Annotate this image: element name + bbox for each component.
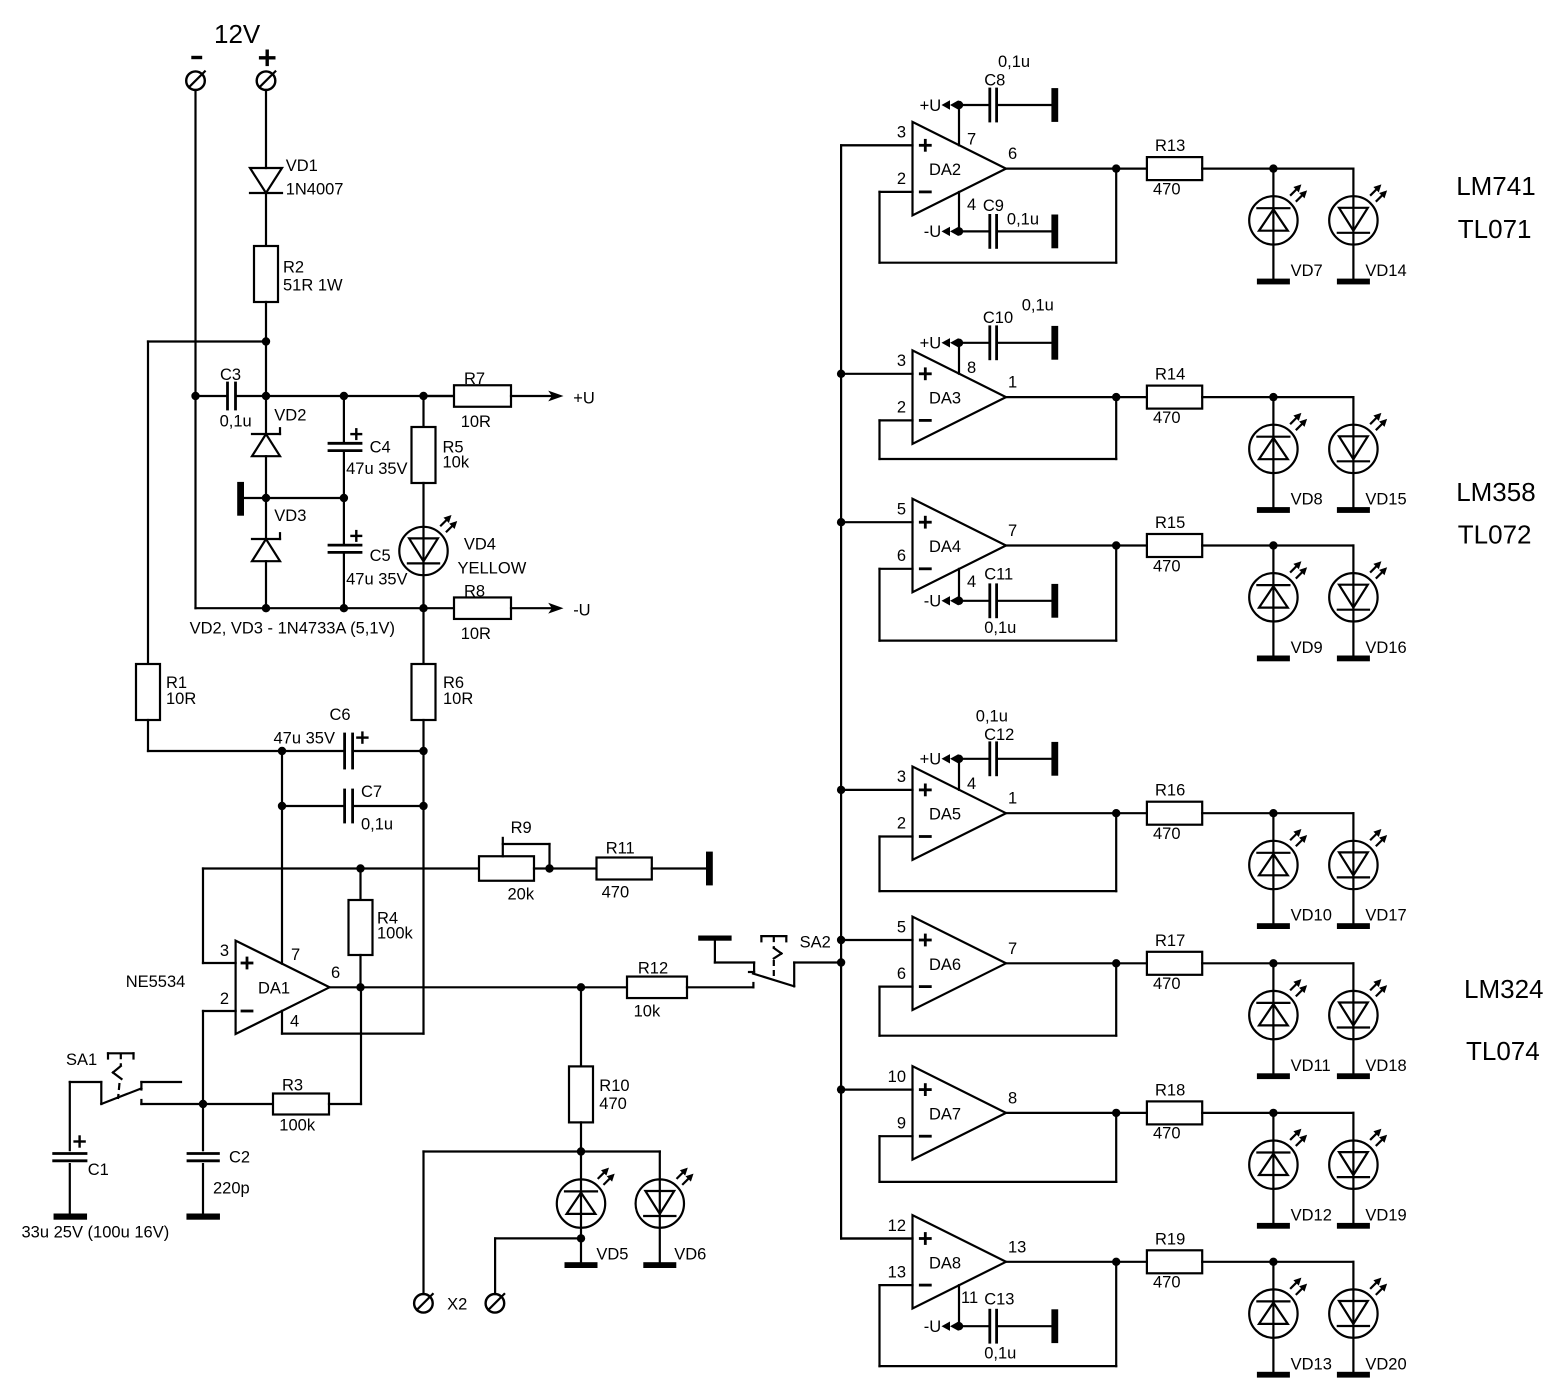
capacitor C6 bbox=[343, 734, 346, 768]
svg-text:R19: R19 bbox=[1155, 1230, 1185, 1248]
ground under VD9 bbox=[1257, 656, 1290, 662]
resistor R7 bbox=[424, 395, 455, 397]
node R9 wiper bbox=[545, 864, 553, 872]
svg-text:7: 7 bbox=[291, 946, 300, 964]
svg-text:VD10: VD10 bbox=[1291, 907, 1332, 925]
svg-text:6: 6 bbox=[1008, 145, 1017, 163]
svg-text:C7: C7 bbox=[361, 783, 382, 801]
svg-text:VD16: VD16 bbox=[1365, 639, 1406, 657]
wire R9 to R11 bbox=[534, 867, 597, 869]
svg-text:7: 7 bbox=[1008, 940, 1017, 958]
ground under VD12 bbox=[1257, 1223, 1290, 1229]
node DA8 -U bbox=[955, 1322, 963, 1330]
terminator bar C8 bbox=[1051, 88, 1058, 122]
wire DA6 output bbox=[1006, 962, 1147, 964]
terminal X2 right bbox=[486, 1294, 505, 1313]
wire R12 to SA2 bbox=[687, 986, 753, 988]
node LED VD8 bbox=[1269, 393, 1277, 401]
svg-text:12: 12 bbox=[888, 1217, 906, 1235]
wire R19 to LEDs bbox=[1202, 1261, 1273, 1263]
svg-text:R9: R9 bbox=[511, 819, 532, 837]
svg-text:220p: 220p bbox=[213, 1180, 250, 1198]
svg-text:470: 470 bbox=[1153, 409, 1181, 427]
svg-text:R10: R10 bbox=[599, 1077, 629, 1095]
node R2/R1 junction bbox=[262, 337, 270, 345]
wire DA5 output bbox=[1006, 812, 1147, 814]
svg-text:DA4: DA4 bbox=[929, 538, 961, 556]
capacitor C5 bbox=[343, 498, 345, 543]
svg-text:VD6: VD6 bbox=[674, 1246, 706, 1264]
LED VD16 bbox=[1352, 546, 1354, 656]
node bus DA3 bbox=[837, 370, 845, 378]
svg-text:R12: R12 bbox=[638, 960, 668, 978]
wire R8 to -U bbox=[511, 607, 554, 609]
svg-text:1: 1 bbox=[1008, 790, 1017, 808]
node VD2 top bbox=[262, 392, 270, 400]
svg-text:SA2: SA2 bbox=[800, 934, 831, 952]
node C4/C5 mid bbox=[340, 494, 348, 502]
wire DA6 feedback bbox=[880, 985, 913, 987]
svg-text:0,1u: 0,1u bbox=[1022, 297, 1054, 315]
arrow -U bbox=[548, 603, 563, 614]
op-amp DA1 bbox=[236, 941, 330, 1034]
node DA3 +U bbox=[955, 339, 963, 347]
svg-text:VD2, VD3 - 1N4733A (5,1V): VD2, VD3 - 1N4733A (5,1V) bbox=[190, 620, 395, 638]
op-amp DA6 bbox=[913, 917, 1007, 1010]
wire VD3 to -rail bbox=[265, 561, 267, 608]
wire DA8 feedback bbox=[880, 1284, 913, 1286]
LED VD19 bbox=[1352, 1113, 1354, 1223]
ground under VD19 bbox=[1337, 1223, 1370, 1229]
ground under C2 bbox=[186, 1214, 220, 1220]
resistor R16 bbox=[1147, 802, 1202, 825]
svg-text:8: 8 bbox=[1008, 1089, 1017, 1107]
op-amp DA2 bbox=[913, 122, 1007, 215]
svg-text:DA5: DA5 bbox=[929, 806, 961, 824]
capacitor C1 bbox=[69, 1082, 71, 1150]
node VD5 cathode tap bbox=[577, 1234, 585, 1242]
ground under VD20 bbox=[1337, 1372, 1370, 1378]
node C6 left tap bbox=[278, 747, 286, 755]
svg-text:-U: -U bbox=[573, 602, 590, 620]
svg-text:VD15: VD15 bbox=[1365, 491, 1406, 509]
svg-text:3: 3 bbox=[220, 942, 229, 960]
svg-text:VD17: VD17 bbox=[1365, 907, 1406, 925]
capacitor C2 bbox=[202, 1104, 204, 1150]
wire DA7 +input bbox=[841, 1088, 912, 1090]
node VD4 bottom bbox=[419, 604, 427, 612]
node DA4 -U bbox=[955, 597, 963, 605]
wire DA1 output bbox=[330, 986, 628, 988]
svg-text:4: 4 bbox=[967, 196, 976, 214]
wire DA3 +input bbox=[841, 373, 912, 375]
svg-text:VD3: VD3 bbox=[274, 507, 306, 525]
svg-text:R14: R14 bbox=[1155, 366, 1185, 384]
wire DA8 output bbox=[1006, 1261, 1147, 1263]
op-amp DA3 bbox=[913, 350, 1007, 443]
svg-text:470: 470 bbox=[1153, 1125, 1181, 1143]
svg-text:C5: C5 bbox=[370, 547, 391, 565]
wire VD1 to R2 bbox=[265, 193, 267, 246]
wire DA1 pin2 bbox=[203, 1010, 236, 1012]
LED VD4 bbox=[399, 527, 447, 575]
terminator bar C12 bbox=[1051, 742, 1058, 776]
wire R16 to LEDs bbox=[1202, 812, 1273, 814]
capacitor C9 bbox=[959, 230, 988, 232]
terminal X1 minus bbox=[186, 71, 205, 90]
node DA2 -U bbox=[955, 227, 963, 235]
node DA2 output bbox=[1112, 164, 1120, 172]
svg-text:-U: -U bbox=[924, 223, 941, 241]
resistor R17 bbox=[1147, 952, 1202, 975]
svg-text:VD18: VD18 bbox=[1365, 1057, 1406, 1075]
svg-text:470: 470 bbox=[602, 884, 630, 902]
svg-text:3: 3 bbox=[897, 352, 906, 370]
op-amp DA4 bbox=[913, 499, 1007, 592]
svg-text:4: 4 bbox=[290, 1013, 299, 1031]
wire DA3 output bbox=[1006, 396, 1147, 398]
terminator bar C10 bbox=[1051, 326, 1058, 360]
svg-text:470: 470 bbox=[1153, 557, 1181, 575]
wire X2 left drop bbox=[422, 1152, 424, 1295]
svg-text:YELLOW: YELLOW bbox=[458, 560, 527, 578]
capacitor C4 bbox=[343, 396, 345, 442]
wire +rail y396 bbox=[196, 395, 227, 397]
wire R13 to LEDs bbox=[1202, 168, 1273, 170]
wire DA4 feedback bbox=[880, 568, 913, 570]
svg-text:VD19: VD19 bbox=[1365, 1206, 1406, 1224]
wire input bus bbox=[840, 145, 842, 1238]
wire -U vertical to DA1 pin4 bbox=[422, 751, 424, 1034]
ground under VD8 bbox=[1257, 507, 1290, 513]
wire DA8 +input bbox=[841, 1237, 912, 1239]
node C6 right tap bbox=[419, 747, 427, 755]
wire R2 to rail node bbox=[265, 302, 267, 396]
wire R7 to +U bbox=[511, 395, 554, 397]
zener VD3 bbox=[252, 538, 280, 540]
node DA2 +U bbox=[955, 101, 963, 109]
ground under VD6 bbox=[643, 1262, 676, 1268]
svg-text:C2: C2 bbox=[229, 1149, 250, 1167]
svg-text:47u 35V: 47u 35V bbox=[346, 460, 407, 478]
terminal X2 left bbox=[414, 1294, 433, 1313]
resistor R12 bbox=[627, 977, 687, 999]
resistor R2 bbox=[254, 246, 278, 302]
svg-text:C12: C12 bbox=[984, 726, 1014, 744]
svg-text:4: 4 bbox=[967, 775, 976, 793]
svg-text:VD4: VD4 bbox=[464, 536, 496, 554]
node C7 right bbox=[419, 802, 427, 810]
svg-text:5: 5 bbox=[897, 501, 906, 519]
node zener midpoint bbox=[262, 494, 270, 502]
svg-text:1N4007: 1N4007 bbox=[286, 181, 344, 199]
svg-text:100k: 100k bbox=[377, 925, 414, 943]
wire DA2 feedback bbox=[880, 191, 913, 193]
wire R3 to output bbox=[329, 1103, 361, 1105]
wire DA1 pin7 bbox=[281, 751, 283, 964]
svg-text:R16: R16 bbox=[1155, 782, 1185, 800]
svg-text:+U: +U bbox=[920, 751, 942, 769]
svg-text:R8: R8 bbox=[464, 583, 485, 601]
resistor R15 bbox=[1147, 534, 1202, 557]
wire minus rail bbox=[194, 90, 196, 396]
wire R18 to LEDs bbox=[1202, 1112, 1273, 1114]
svg-text:7: 7 bbox=[1008, 522, 1017, 540]
svg-text:0,1u: 0,1u bbox=[1007, 211, 1039, 229]
LED VD13 bbox=[1272, 1262, 1274, 1372]
potentiometer R9 bbox=[479, 856, 534, 881]
svg-text:5: 5 bbox=[897, 918, 906, 936]
wire -rail y608 bbox=[196, 607, 455, 609]
op-amp DA5 bbox=[913, 767, 1007, 860]
svg-text:R7: R7 bbox=[464, 370, 485, 388]
zener VD2 bbox=[265, 396, 267, 434]
LED VD14 bbox=[1352, 169, 1354, 279]
wire DA7 feedback bbox=[880, 1135, 913, 1137]
op-amp DA7 bbox=[913, 1066, 1007, 1159]
wire R1 to C6 rail bbox=[147, 720, 149, 751]
svg-text:2: 2 bbox=[897, 399, 906, 417]
LED VD5 bbox=[580, 1152, 582, 1263]
resistor R4 bbox=[359, 869, 361, 901]
wire DA4 +input bbox=[841, 521, 912, 523]
svg-text:470: 470 bbox=[1153, 975, 1181, 993]
resistor R8 bbox=[454, 597, 511, 619]
svg-text:100k: 100k bbox=[279, 1117, 316, 1135]
wire R11 to bar bbox=[652, 867, 706, 869]
svg-text:C4: C4 bbox=[370, 439, 391, 457]
resistor R1 bbox=[136, 664, 160, 720]
svg-text:DA3: DA3 bbox=[929, 390, 961, 408]
svg-text:10R: 10R bbox=[166, 690, 196, 708]
svg-text:VD11: VD11 bbox=[1291, 1057, 1331, 1075]
node R5 top bbox=[419, 392, 427, 400]
wire DA3 pin 8 supply bbox=[958, 343, 960, 374]
svg-text:VD14: VD14 bbox=[1365, 262, 1406, 280]
ground under VD5 bbox=[565, 1262, 598, 1268]
ground under VD14 bbox=[1337, 279, 1370, 285]
terminator bar C13 bbox=[1051, 1309, 1058, 1343]
resistor R18 bbox=[1147, 1101, 1202, 1124]
ground under VD18 bbox=[1337, 1073, 1370, 1079]
wire DA5 pin 4 supply bbox=[958, 759, 960, 790]
capacitor C8 bbox=[959, 104, 988, 106]
svg-text:TL074: TL074 bbox=[1466, 1036, 1540, 1066]
svg-text:10k: 10k bbox=[634, 1003, 661, 1021]
resistor R14 bbox=[1147, 386, 1202, 409]
wire DA4 pin 4 supply bbox=[958, 569, 960, 601]
wire R17 to LEDs bbox=[1202, 962, 1273, 964]
resistor R3 bbox=[141, 1103, 273, 1105]
wire R5 to VD4 bbox=[422, 483, 424, 608]
wire mid to C4/C5 bbox=[266, 497, 344, 499]
wire X2 right link bbox=[495, 1237, 581, 1239]
wire DA2 pin 4 supply bbox=[958, 192, 960, 231]
wire branch to R1 bbox=[148, 340, 266, 342]
node minus rail / C3 bbox=[191, 392, 199, 400]
svg-text:4: 4 bbox=[967, 573, 976, 591]
diode VD1 bbox=[250, 168, 282, 193]
svg-text:51R 1W: 51R 1W bbox=[283, 277, 343, 295]
node R10 bottom bbox=[577, 1147, 585, 1155]
wire R14 to LEDs bbox=[1202, 396, 1273, 398]
node LED VD13 bbox=[1269, 1258, 1277, 1266]
wire bias line y868 bbox=[203, 867, 479, 869]
svg-text:1: 1 bbox=[1008, 374, 1017, 392]
node VD3 bottom bbox=[262, 604, 270, 612]
node bus DA4 bbox=[837, 518, 845, 526]
svg-text:X2: X2 bbox=[447, 1296, 467, 1314]
node R4/R3 output bbox=[356, 983, 364, 991]
node LED VD7 bbox=[1269, 164, 1277, 172]
LED VD15 bbox=[1352, 397, 1354, 507]
svg-text:470: 470 bbox=[1153, 1274, 1181, 1292]
wire DA1 pin3 bbox=[203, 962, 236, 964]
wire DA5 feedback bbox=[880, 835, 913, 837]
node C7 left bbox=[278, 802, 286, 810]
LED VD6 bbox=[659, 1152, 661, 1263]
svg-text:7: 7 bbox=[967, 131, 976, 149]
node LED VD10 bbox=[1269, 809, 1277, 817]
terminator bar C9 bbox=[1051, 215, 1058, 249]
svg-text:33u 25V (100u 16V): 33u 25V (100u 16V) bbox=[22, 1224, 170, 1242]
node C5 bottom bbox=[340, 604, 348, 612]
svg-text:R2: R2 bbox=[283, 259, 304, 277]
svg-text:-U: -U bbox=[924, 1318, 941, 1336]
svg-text:C1: C1 bbox=[88, 1161, 109, 1179]
ground lug mid-rail bbox=[237, 482, 244, 516]
resistor R11 bbox=[597, 858, 652, 880]
svg-text:LM741: LM741 bbox=[1456, 171, 1536, 201]
wire DA8 pin 11 supply bbox=[958, 1285, 960, 1326]
svg-text:10R: 10R bbox=[461, 625, 491, 643]
svg-text:0,1u: 0,1u bbox=[361, 816, 393, 834]
resistor R10 bbox=[580, 987, 582, 1066]
svg-text:0,1u: 0,1u bbox=[220, 413, 252, 431]
svg-text:DA1: DA1 bbox=[258, 980, 290, 998]
svg-text:2: 2 bbox=[897, 815, 906, 833]
LED VD18 bbox=[1352, 963, 1354, 1073]
svg-text:47u 35V: 47u 35V bbox=[346, 571, 407, 589]
svg-text:VD7: VD7 bbox=[1291, 262, 1323, 280]
node DA5 +U bbox=[955, 755, 963, 763]
ground under VD15 bbox=[1337, 507, 1370, 513]
svg-text:13: 13 bbox=[888, 1263, 906, 1281]
LED VD7 bbox=[1272, 169, 1274, 279]
svg-text:VD12: VD12 bbox=[1291, 1206, 1332, 1224]
svg-text:20k: 20k bbox=[508, 886, 535, 904]
ground under VD10 bbox=[1257, 923, 1290, 929]
terminator bar C11 bbox=[1051, 584, 1058, 618]
wire C6 right bbox=[354, 750, 424, 752]
node R4 top bbox=[356, 864, 364, 872]
svg-text:VD1: VD1 bbox=[286, 157, 318, 175]
svg-text:+U: +U bbox=[573, 390, 595, 408]
svg-text:R3: R3 bbox=[282, 1077, 303, 1095]
svg-text:3: 3 bbox=[897, 768, 906, 786]
wire DA4 output bbox=[1006, 544, 1147, 546]
svg-text:-U: -U bbox=[924, 593, 941, 611]
svg-text:10: 10 bbox=[888, 1068, 906, 1086]
svg-text:TL071: TL071 bbox=[1458, 214, 1532, 244]
node bus DA7 bbox=[837, 1085, 845, 1093]
svg-text:470: 470 bbox=[1153, 825, 1181, 843]
svg-text:47u 35V: 47u 35V bbox=[274, 730, 335, 748]
LED VD9 bbox=[1272, 546, 1274, 656]
svg-text:C13: C13 bbox=[984, 1291, 1014, 1309]
svg-text:DA2: DA2 bbox=[929, 161, 961, 179]
svg-text:VD5: VD5 bbox=[596, 1246, 628, 1264]
svg-text:C9: C9 bbox=[983, 197, 1004, 215]
svg-text:C8: C8 bbox=[984, 72, 1005, 90]
capacitor C7 bbox=[282, 805, 343, 807]
svg-text:6: 6 bbox=[331, 964, 340, 982]
svg-text:C3: C3 bbox=[220, 366, 241, 384]
capacitor C11 bbox=[959, 600, 988, 602]
svg-text:2: 2 bbox=[897, 170, 906, 188]
svg-text:VD9: VD9 bbox=[1291, 639, 1323, 657]
node DA4 output bbox=[1112, 541, 1120, 549]
svg-text:R11: R11 bbox=[606, 840, 635, 858]
svg-text:10R: 10R bbox=[443, 690, 473, 708]
terminal X1 plus bbox=[257, 71, 276, 90]
svg-text:R18: R18 bbox=[1155, 1081, 1185, 1099]
svg-text:R13: R13 bbox=[1155, 137, 1185, 155]
node SA2 bus bbox=[837, 958, 845, 966]
LED VD12 bbox=[1272, 1113, 1274, 1223]
wire DA1 pin4 bbox=[281, 1011, 283, 1034]
wire R15 to LEDs bbox=[1202, 544, 1273, 546]
node bus DA5 bbox=[837, 786, 845, 794]
svg-text:470: 470 bbox=[599, 1095, 627, 1113]
resistor R5 bbox=[422, 396, 424, 427]
svg-text:6: 6 bbox=[897, 965, 906, 983]
svg-text:SA1: SA1 bbox=[66, 1051, 97, 1069]
wire DA2 output bbox=[1006, 168, 1147, 170]
LED VD8 bbox=[1272, 397, 1274, 507]
LED VD17 bbox=[1352, 813, 1354, 923]
svg-text:6: 6 bbox=[897, 547, 906, 565]
svg-text:DA6: DA6 bbox=[929, 956, 961, 974]
ground under C1 bbox=[54, 1214, 88, 1220]
node DA8 output bbox=[1112, 1258, 1120, 1266]
svg-text:0,1u: 0,1u bbox=[984, 1345, 1016, 1363]
svg-text:DA8: DA8 bbox=[929, 1254, 961, 1272]
svg-text:C10: C10 bbox=[983, 309, 1013, 327]
ground under VD17 bbox=[1337, 923, 1370, 929]
node DA7 output bbox=[1112, 1109, 1120, 1117]
svg-text:C11: C11 bbox=[984, 566, 1013, 584]
svg-text:VD13: VD13 bbox=[1291, 1355, 1332, 1373]
svg-text:0,1u: 0,1u bbox=[976, 708, 1008, 726]
node R10 tap bbox=[577, 983, 585, 991]
svg-text:8: 8 bbox=[967, 359, 976, 377]
svg-text:DA7: DA7 bbox=[929, 1105, 961, 1123]
svg-text:LM358: LM358 bbox=[1456, 477, 1536, 507]
LED VD10 bbox=[1272, 813, 1274, 923]
svg-text:10k: 10k bbox=[443, 454, 470, 472]
resistor R6 bbox=[422, 608, 424, 664]
svg-text:+U: +U bbox=[920, 97, 942, 115]
svg-text:9: 9 bbox=[897, 1114, 906, 1132]
svg-text:2: 2 bbox=[220, 990, 229, 1008]
svg-text:+U: +U bbox=[920, 335, 942, 353]
svg-text:VD8: VD8 bbox=[1291, 491, 1323, 509]
ground under VD7 bbox=[1257, 279, 1290, 285]
LED VD11 bbox=[1272, 963, 1274, 1073]
node R3 input bbox=[199, 1100, 207, 1108]
svg-text:0,1u: 0,1u bbox=[984, 619, 1016, 637]
